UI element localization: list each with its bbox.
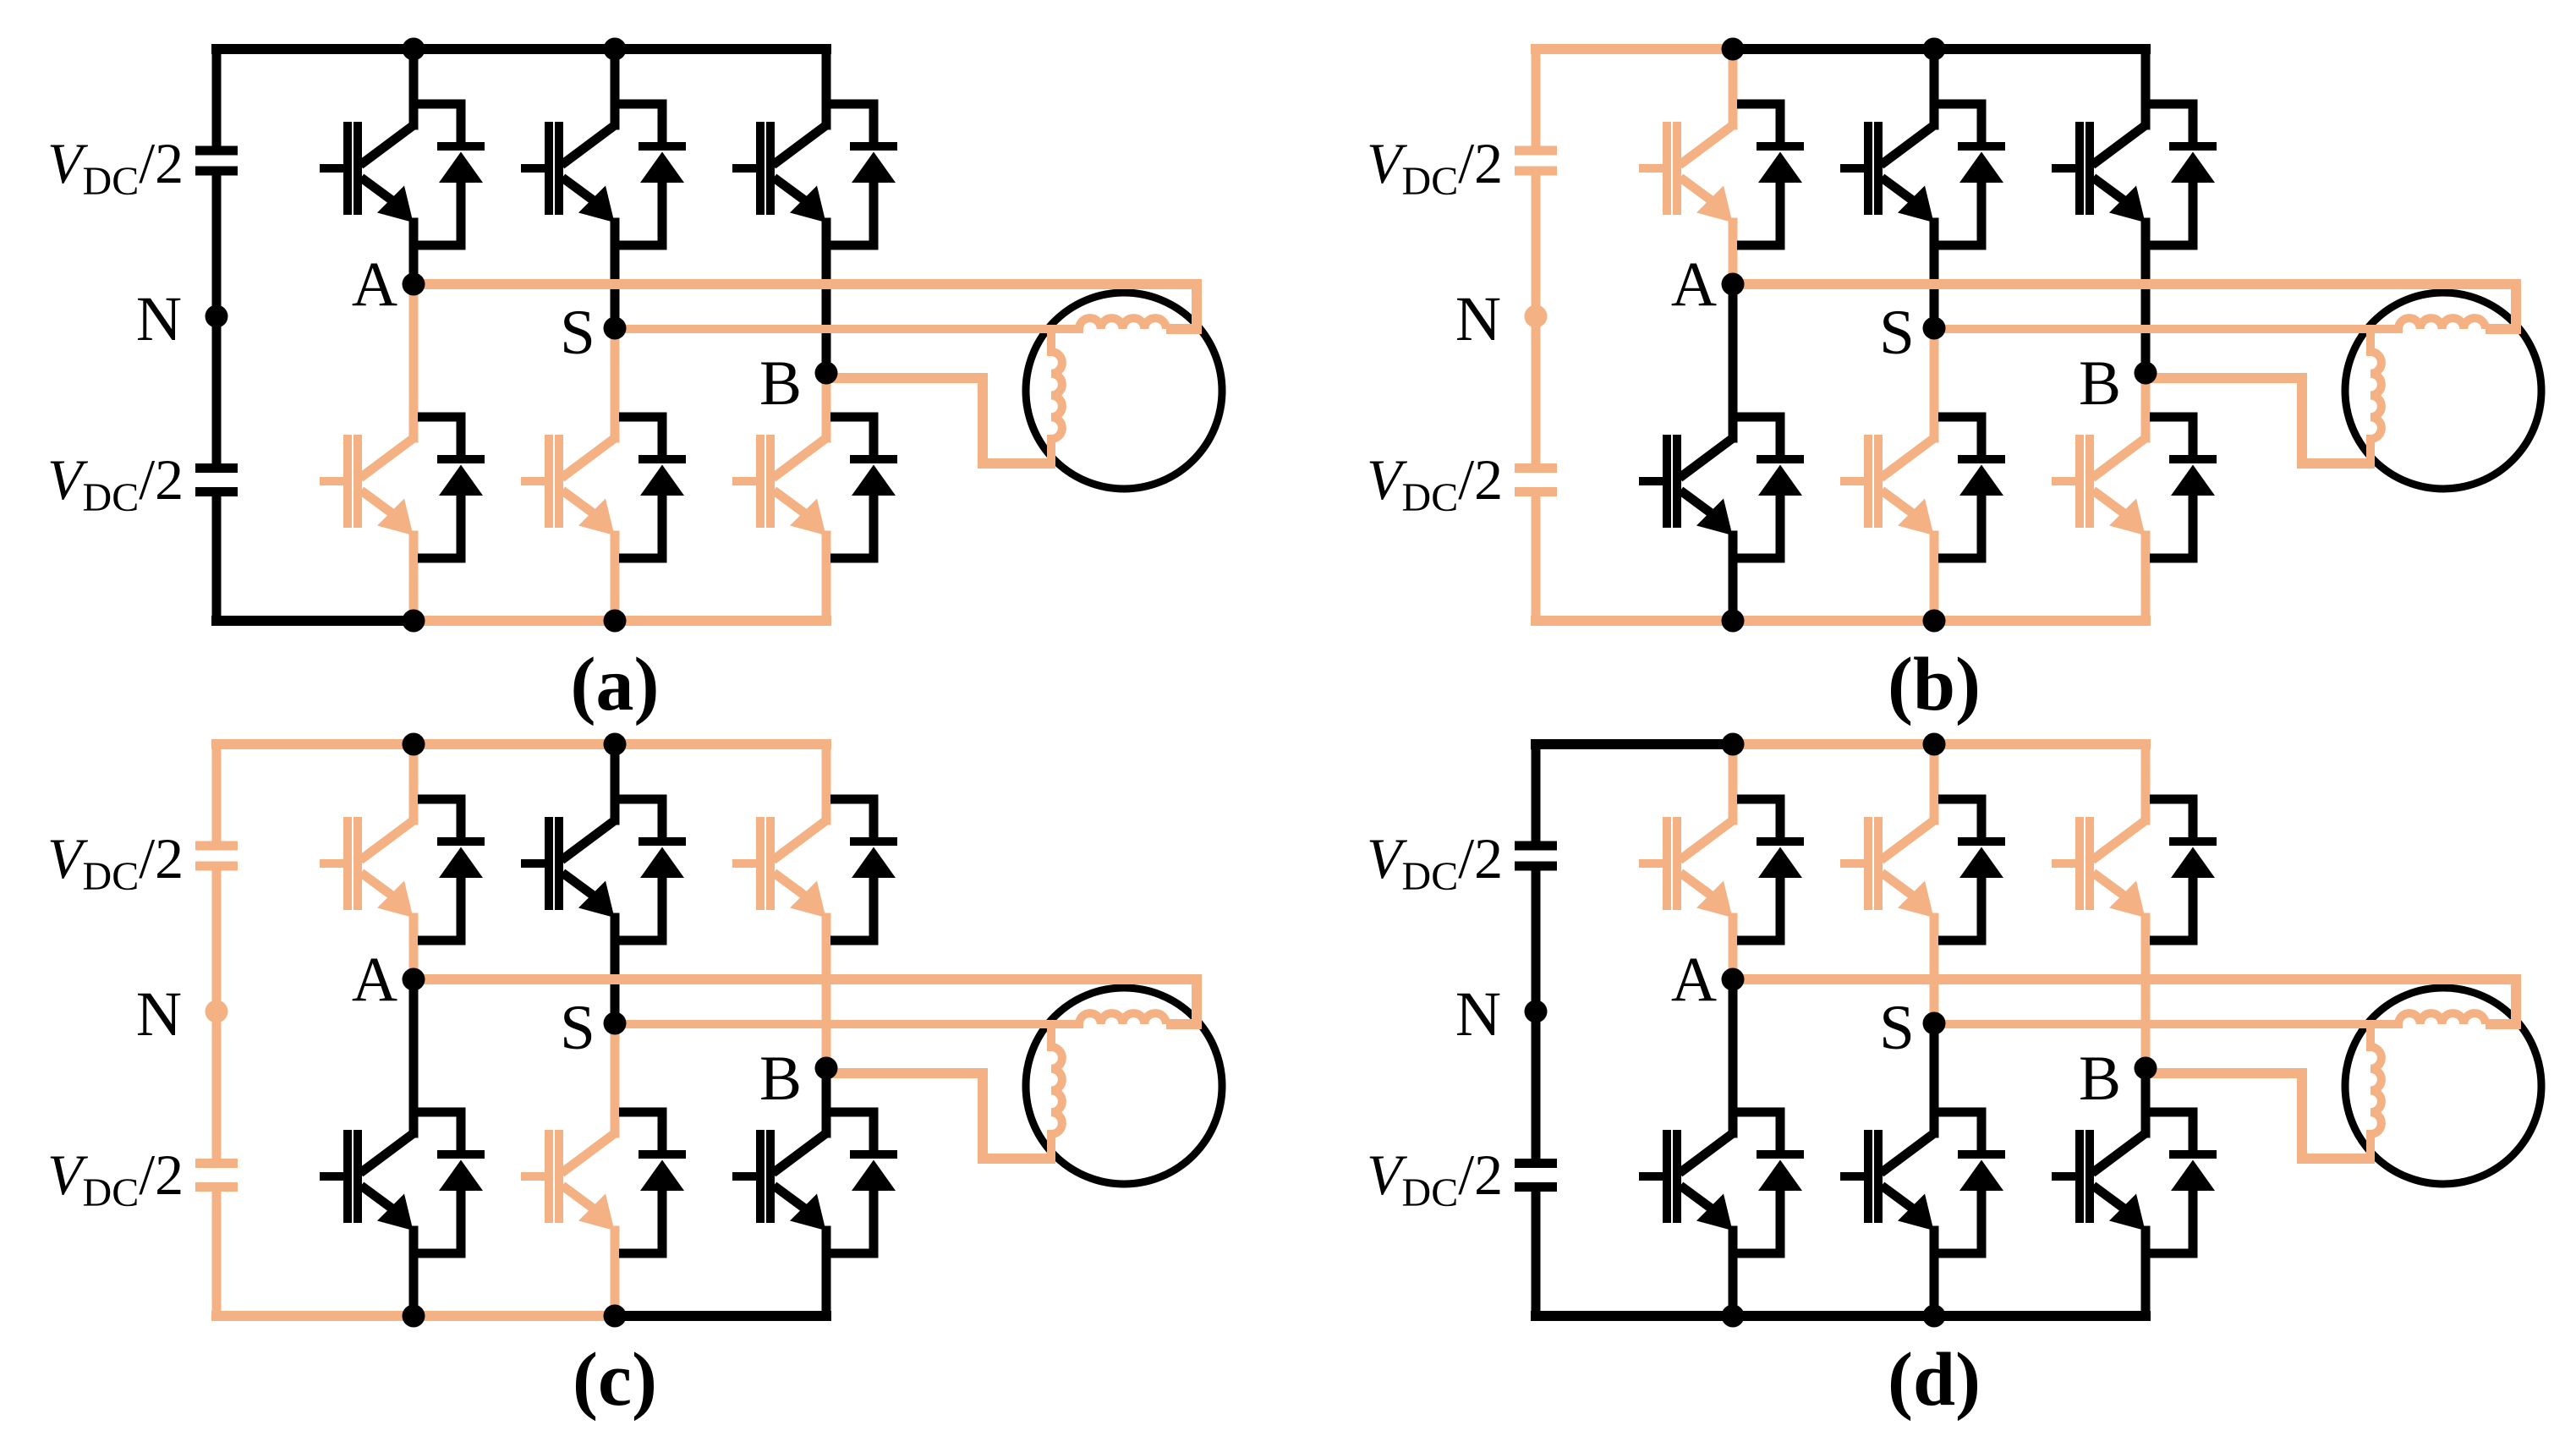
wire: phase A output to motor (b): [1733, 284, 2516, 329]
wire: bottom DC bus left segment (d): [1536, 1311, 1733, 1321]
svg-text:B: B: [759, 1044, 802, 1114]
wire: star point S output with winding W1 (a): [615, 318, 1166, 329]
wire: leg 3 lower rail (d): [2141, 1068, 2151, 1316]
transistor Q3 (d): [1840, 817, 1934, 918]
motor M (c): [1026, 988, 1222, 1184]
wire: bottom DC bus right segment (a): [414, 616, 826, 626]
wire: bottom DC bus left segment (a): [216, 616, 414, 626]
diode D6 (c): [830, 1112, 897, 1253]
capacitor C2 VDC/2 lower (c): [195, 1164, 238, 1187]
winding W2 vertical (a): [1051, 329, 1062, 463]
wire: top DC bus left segment (d): [1536, 739, 1733, 749]
wire: DC-link left branch (c): [212, 744, 222, 1316]
transistor Q2 (d): [1639, 1130, 1733, 1230]
node: top bus junction leg1 (a): [403, 38, 425, 61]
wire: phase B output to motor (b): [2146, 378, 2375, 463]
wire: DC-link left branch (a): [212, 49, 222, 621]
wire: bottom DC bus left segment (b): [1536, 616, 1733, 626]
node: top bus junction leg2 (c): [604, 733, 627, 756]
capacitor C1 VDC/2 upper (c): [195, 846, 238, 866]
node: top bus junction leg1 (c): [403, 733, 425, 756]
node: bottom bus junction leg1 (b): [1722, 610, 1745, 633]
svg-text:N: N: [136, 284, 182, 354]
node: top bus junction leg2 (d): [1923, 733, 1946, 756]
svg-text:N: N: [1455, 979, 1501, 1050]
wire: leg 2 lower rail (b): [1930, 328, 1939, 621]
node S (d): [1923, 1012, 1946, 1035]
svg-text:(b): (b): [1888, 643, 1981, 726]
wire: phase A output to motor (a): [414, 284, 1197, 329]
diode D1 (d): [1737, 799, 1804, 940]
node N (a): [206, 305, 228, 328]
svg-text:A: A: [1671, 945, 1717, 1015]
diode D1 (b): [1737, 104, 1804, 245]
node: bottom bus junction leg1 (a): [403, 610, 425, 633]
wire: phase B output to motor (d): [2146, 1073, 2375, 1159]
node B (c): [815, 1057, 838, 1080]
transistor Q2 (c): [320, 1130, 414, 1230]
wire: leg 1 upper rail (b): [1729, 49, 1738, 284]
transistor Q2 (a): [320, 435, 414, 535]
svg-text:A: A: [352, 249, 397, 320]
node: bottom bus junction leg2 (c): [604, 1305, 627, 1328]
svg-text:A: A: [1671, 249, 1717, 320]
diode D5 (b): [2150, 104, 2217, 245]
diode D1 (a): [418, 104, 485, 245]
node S (b): [1923, 317, 1946, 340]
wire: leg 1 upper rail (d): [1729, 744, 1738, 979]
wire: phase B output to motor (a): [826, 378, 1055, 463]
transistor Q3 (c): [521, 817, 615, 918]
capacitor C2 VDC/2 lower (a): [195, 469, 238, 492]
capacitor C1 VDC/2 upper (d): [1515, 846, 1557, 866]
diode D5 (c): [830, 799, 897, 940]
wire: phase A output to motor (c): [414, 979, 1197, 1024]
wire: star point S output with winding W1 (b): [1934, 318, 2486, 329]
wire: leg 3 upper rail (b): [2141, 49, 2151, 373]
diode D6 (b): [2150, 417, 2217, 558]
node N (d): [1525, 1000, 1548, 1023]
transistor Q4 (c): [521, 1130, 615, 1230]
capacitor C1 VDC/2 upper (b): [1515, 151, 1557, 171]
svg-text:S: S: [560, 993, 595, 1063]
wire: top DC bus left segment (b): [1536, 44, 1733, 54]
wire: top DC bus right segment (b): [1733, 44, 2146, 54]
wire: top DC bus right segment (a): [414, 44, 826, 54]
svg-text:A: A: [352, 945, 397, 1015]
diode D1 (c): [418, 799, 485, 940]
wire: bottom DC bus right segment (d): [1733, 1311, 2146, 1321]
winding W2 vertical (d): [2370, 1024, 2381, 1159]
transistor Q4 (b): [1840, 435, 1934, 535]
wire: leg 1 upper rail (c): [409, 744, 419, 979]
svg-text:S: S: [1879, 298, 1915, 368]
node N (c): [206, 1000, 228, 1023]
diode D4 (c): [619, 1112, 686, 1253]
diode D3 (d): [1938, 799, 2005, 940]
wire: phase B output to motor (c): [826, 1073, 1055, 1159]
capacitor C2 VDC/2 lower (b): [1515, 469, 1557, 492]
svg-text:(d): (d): [1888, 1338, 1981, 1422]
wire: leg 3 lower rail (b): [2141, 373, 2151, 621]
winding W2 vertical (c): [1051, 1024, 1062, 1159]
node A (c): [403, 968, 425, 991]
wire: leg 3 upper rail (d): [2141, 744, 2151, 1068]
wire: bottom DC bus right segment (c): [615, 1311, 826, 1321]
node: bottom bus junction leg1 (c): [403, 1305, 425, 1328]
capacitor C2 VDC/2 lower (d): [1515, 1164, 1557, 1187]
diode D4 (a): [619, 417, 686, 558]
svg-text:(c): (c): [573, 1338, 657, 1422]
wire: top DC bus left segment (a): [216, 44, 414, 54]
transistor Q1 (d): [1639, 817, 1733, 918]
transistor Q1 (a): [320, 122, 414, 222]
node: bottom bus junction leg2 (b): [1923, 610, 1946, 633]
wire: top DC bus right segment (d): [1733, 739, 2146, 749]
node: bottom bus junction leg2 (d): [1923, 1305, 1946, 1328]
transistor Q6 (d): [2052, 1130, 2146, 1230]
wire: leg 2 upper rail (b): [1930, 49, 1939, 328]
wire: leg 1 lower rail (a): [409, 284, 419, 621]
diode D4 (d): [1938, 1112, 2005, 1253]
motor M (b): [2345, 293, 2541, 489]
wire: top DC bus right segment (c): [414, 739, 826, 749]
wire: leg 2 lower rail (c): [611, 1023, 620, 1316]
diode D4 (b): [1938, 417, 2005, 558]
diode D6 (a): [830, 417, 897, 558]
svg-text:S: S: [560, 298, 595, 368]
node: bottom bus junction leg2 (a): [604, 610, 627, 633]
transistor Q3 (a): [521, 122, 615, 222]
wire: leg 3 lower rail (a): [822, 373, 831, 621]
node: top bus junction leg2 (a): [604, 38, 627, 61]
transistor Q4 (d): [1840, 1130, 1934, 1230]
wire: leg 2 upper rail (c): [611, 744, 620, 1023]
wire: leg 3 lower rail (c): [822, 1068, 831, 1316]
diode D3 (c): [619, 799, 686, 940]
diode D6 (d): [2150, 1112, 2217, 1253]
wire: leg 1 lower rail (c): [409, 979, 419, 1316]
node B (b): [2135, 362, 2157, 385]
transistor Q5 (c): [732, 817, 826, 918]
wire: leg 2 lower rail (a): [611, 328, 620, 621]
transistor Q2 (b): [1639, 435, 1733, 535]
diode D5 (d): [2150, 799, 2217, 940]
transistor Q5 (b): [2052, 122, 2146, 222]
transistor Q1 (c): [320, 817, 414, 918]
svg-text:S: S: [1879, 993, 1915, 1063]
wire: star point S output with winding W1 (d): [1934, 1013, 2486, 1024]
diode D2 (c): [418, 1112, 485, 1253]
wire: top DC bus left segment (c): [216, 739, 414, 749]
node B (a): [815, 362, 838, 385]
wire: star point S output with winding W1 (c): [615, 1013, 1166, 1024]
transistor Q5 (a): [732, 122, 826, 222]
svg-text:B: B: [2079, 348, 2121, 419]
wire: bottom DC bus left segment (c): [216, 1311, 615, 1321]
transistor Q6 (b): [2052, 435, 2146, 535]
transistor Q6 (c): [732, 1130, 826, 1230]
wire: leg 3 upper rail (c): [822, 744, 831, 1068]
transistor Q5 (d): [2052, 817, 2146, 918]
svg-text:N: N: [136, 979, 182, 1050]
wire: leg 2 upper rail (a): [611, 49, 620, 328]
transistor Q3 (b): [1840, 122, 1934, 222]
diode D2 (d): [1737, 1112, 1804, 1253]
motor M (d): [2345, 988, 2541, 1184]
svg-text:N: N: [1455, 284, 1501, 354]
node S (c): [604, 1012, 627, 1035]
capacitor C1 VDC/2 upper (a): [195, 151, 238, 171]
wire: leg 3 upper rail (a): [822, 49, 831, 373]
transistor Q6 (a): [732, 435, 826, 535]
wire: DC-link left branch (b): [1532, 49, 1541, 621]
node: top bus junction leg1 (b): [1722, 38, 1745, 61]
wire: leg 1 upper rail (a): [409, 49, 419, 284]
node: top bus junction leg1 (d): [1722, 733, 1745, 756]
svg-text:(a): (a): [571, 643, 660, 726]
node A (b): [1722, 273, 1745, 296]
node B (d): [2135, 1057, 2157, 1080]
diode D5 (a): [830, 104, 897, 245]
wire: leg 1 lower rail (d): [1729, 979, 1738, 1316]
node A (d): [1722, 968, 1745, 991]
wire: leg 2 upper rail (d): [1930, 744, 1939, 1023]
transistor Q1 (b): [1639, 122, 1733, 222]
svg-text:B: B: [2079, 1044, 2121, 1114]
wire: phase A output to motor (d): [1733, 979, 2516, 1024]
node: bottom bus junction leg1 (d): [1722, 1305, 1745, 1328]
diode D2 (a): [418, 417, 485, 558]
diode D2 (b): [1737, 417, 1804, 558]
diode D3 (b): [1938, 104, 2005, 245]
wire: bottom DC bus right segment (b): [1733, 616, 2146, 626]
node: top bus junction leg2 (b): [1923, 38, 1946, 61]
wire: leg 2 lower rail (d): [1930, 1023, 1939, 1316]
svg-text:B: B: [759, 348, 802, 419]
wire: leg 1 lower rail (b): [1729, 284, 1738, 621]
node N (b): [1525, 305, 1548, 328]
diode D3 (a): [619, 104, 686, 245]
node S (a): [604, 317, 627, 340]
transistor Q4 (a): [521, 435, 615, 535]
winding W2 vertical (b): [2370, 329, 2381, 463]
motor M (a): [1026, 293, 1222, 489]
wire: DC-link left branch (d): [1532, 744, 1541, 1316]
node A (a): [403, 273, 425, 296]
